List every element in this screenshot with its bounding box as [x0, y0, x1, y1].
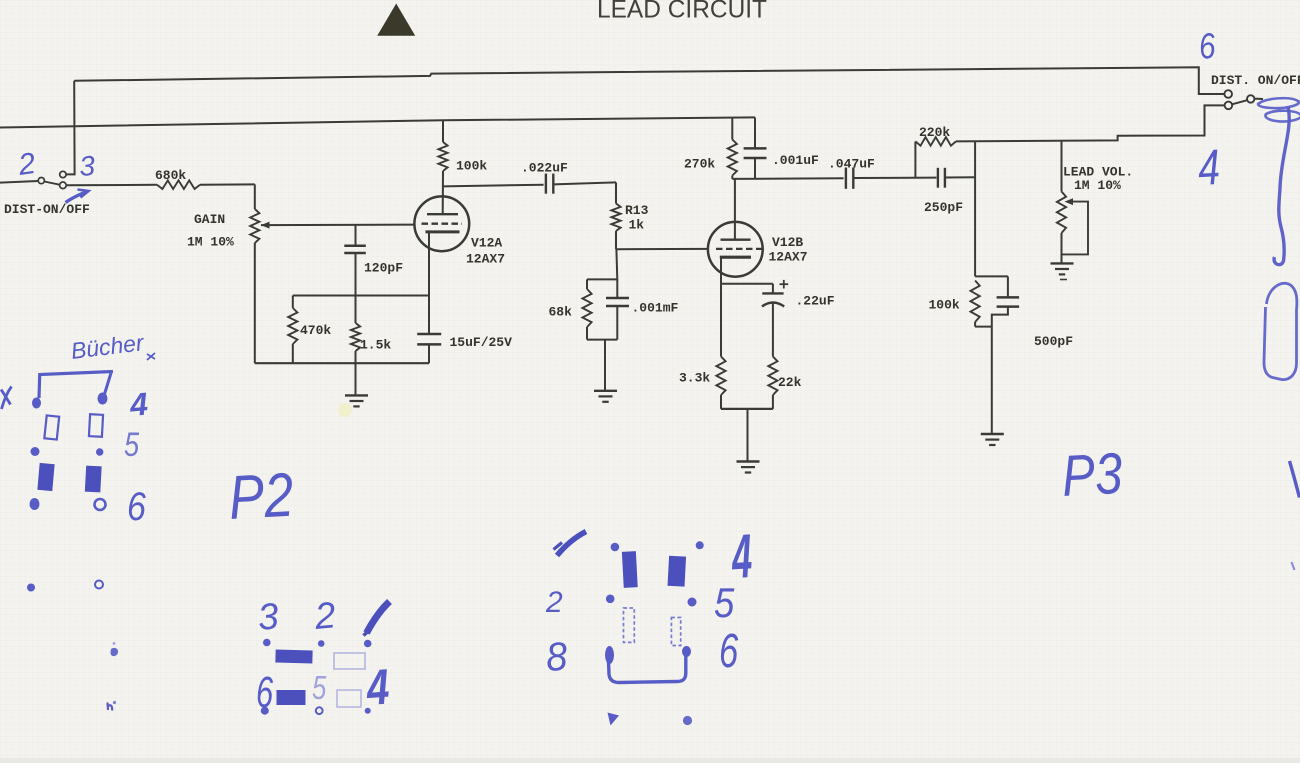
tube V12B 12AX7	[708, 222, 763, 277]
svg-text:6: 6	[127, 483, 146, 528]
wire switch to 680k	[66, 184, 157, 187]
capacitor 500pF	[997, 276, 1020, 306]
capacitor .001uF	[744, 117, 767, 178]
wire .047uF to 250pF	[853, 177, 936, 179]
svg-text:DIST. ON/OFF: DIST. ON/OFF	[1211, 73, 1300, 88]
svg-text:GAIN: GAIN	[194, 212, 225, 227]
resistor 680k	[157, 180, 200, 189]
capacitor .22uF polarized	[762, 280, 788, 357]
svg-text:4: 4	[364, 658, 391, 716]
svg-text:22k: 22k	[778, 375, 802, 390]
wire cathode to .22uF	[721, 283, 773, 285]
resistor 220k	[915, 137, 975, 178]
capacitor 250pF	[938, 168, 945, 188]
center filled pin rect B	[668, 556, 687, 587]
svg-text:270k: 270k	[684, 157, 715, 172]
connector pin dots mid	[31, 447, 40, 456]
connector bracket sketch	[39, 372, 113, 399]
wire top rail from left vertical to DIST switch	[74, 67, 1224, 94]
resistor 22k	[768, 357, 777, 409]
connector pin bottom dots	[30, 498, 40, 510]
wire 68k box bottom rail	[587, 339, 617, 341]
wire V12B plate lead	[734, 179, 736, 240]
wire 100k bottom	[975, 326, 992, 328]
svg-text:3: 3	[256, 595, 280, 638]
capacitor .022uF	[546, 174, 553, 194]
wire 680k to GAIN pot	[200, 183, 255, 185]
svg-text:.22uF: .22uF	[796, 294, 835, 309]
ground 68k network	[594, 391, 617, 402]
svg-text:1M 10%: 1M 10%	[1074, 178, 1121, 193]
resistor 68k	[582, 279, 591, 339]
wire cathode network bottom rail	[721, 408, 773, 410]
center dashed pin outline A	[624, 608, 635, 642]
wire V12A plate to .022uF	[443, 185, 544, 187]
svg-text:100k: 100k	[929, 298, 960, 313]
pen mark small right edge	[1292, 562, 1295, 570]
wire B+ supply rail	[0, 117, 755, 127]
potentiometer LEAD VOL 1M	[1057, 140, 1088, 262]
svg-text:3: 3	[78, 150, 96, 182]
handwritten arrow 1 below left switch	[66, 191, 89, 202]
center pin dots row2	[606, 595, 615, 604]
resistor 1.5k	[351, 296, 360, 364]
svg-text:1M 10%: 1M 10%	[187, 235, 234, 250]
ground V12A cathode network	[345, 395, 368, 406]
wire RC network bottom rail	[255, 362, 429, 364]
wire GAIN wiper to V12A grid	[261, 224, 415, 227]
svg-text:12AX7: 12AX7	[466, 252, 505, 267]
svg-text:1.5k: 1.5k	[360, 338, 391, 353]
wire 250pF to node	[945, 176, 975, 178]
resistor 470k	[288, 296, 297, 364]
pen scribble rounded loop right edge	[1264, 283, 1297, 379]
wire 68k box top rail	[587, 278, 617, 280]
connector pin outline rect 1	[44, 415, 59, 439]
connector pin filled rect 1	[37, 463, 54, 491]
yellow spot	[338, 403, 352, 417]
svg-text:V12A: V12A	[471, 236, 502, 251]
wire to ground V12B cathode	[747, 409, 749, 461]
pen scribble diagonal bottom right	[1290, 461, 1300, 498]
handwritten lambda mark left edge	[1, 387, 12, 410]
wire input from left edge	[0, 181, 38, 183]
wire V12A cathode lead	[428, 232, 430, 334]
svg-text:500pF: 500pF	[1034, 334, 1073, 349]
blue filled bar 2 mid	[277, 690, 306, 705]
center filled pin rect A	[622, 551, 638, 588]
svg-text:250pF: 250pF	[924, 200, 963, 215]
svg-text:6: 6	[719, 623, 739, 677]
blue filled bar 1 mid	[275, 650, 312, 664]
svg-text:.047uF: .047uF	[828, 157, 875, 172]
svg-text:.001uF: .001uF	[772, 153, 819, 168]
pen scribble long vertical stroke right edge	[1274, 107, 1289, 265]
wire plate node to .047uF	[732, 177, 843, 180]
svg-text:2: 2	[545, 586, 563, 619]
capacitor 120pF	[344, 225, 366, 296]
switch DIST. ON/OFF right	[1224, 90, 1263, 109]
wire 100k/500pF top rail	[975, 275, 1008, 277]
svg-text:.001mF: .001mF	[632, 301, 679, 316]
wire V12B cathode lead	[720, 257, 722, 284]
handwritten 1 slash center	[557, 532, 586, 556]
svg-text:470k: 470k	[300, 323, 331, 338]
center dashed pin outline B	[671, 618, 680, 646]
svg-text:1k: 1k	[629, 218, 645, 233]
wire to ground V12A cathode	[355, 363, 357, 395]
svg-text:5: 5	[312, 670, 327, 707]
center bracket hook	[608, 649, 686, 683]
svg-text:P2: P2	[227, 461, 295, 533]
svg-text:15uF/25V: 15uF/25V	[450, 335, 513, 350]
capacitor .047uF	[846, 168, 853, 189]
capacitor 15uF/25V	[417, 334, 441, 363]
triangle marker	[377, 4, 415, 36]
wire RC network top rail	[293, 295, 429, 297]
resistor 100k right	[971, 281, 980, 327]
faint outline bar mid	[334, 653, 365, 669]
tube V12A 12AX7	[414, 196, 469, 251]
svg-text:4: 4	[127, 386, 149, 424]
connector pin outline rect 2	[89, 414, 103, 437]
faint outline bar 2 mid	[337, 690, 361, 707]
svg-text:68k: 68k	[549, 305, 573, 320]
svg-text:8: 8	[545, 635, 569, 680]
ground 100k/500pF network	[981, 434, 1004, 445]
svg-text:V12B: V12B	[772, 235, 803, 250]
resistor 100k V12A plate	[438, 120, 447, 214]
wire node vertical to 100k/500pF	[974, 141, 976, 276]
svg-text:2: 2	[312, 594, 337, 637]
svg-text:220k: 220k	[919, 125, 950, 140]
resistor 3.3k	[716, 284, 725, 409]
svg-text:.022uF: .022uF	[521, 161, 568, 176]
blue dots mid trio	[263, 639, 271, 647]
wire left vertical to top rail	[66, 81, 75, 175]
wire node to DIST switch right	[975, 105, 1224, 141]
svg-text:R13: R13	[625, 203, 649, 218]
wire to ground 100k/500pF	[991, 327, 993, 434]
svg-text:5: 5	[124, 425, 140, 464]
wire 500pF bottom jog	[992, 307, 1008, 327]
pen scribble loops near right switch	[1258, 98, 1300, 121]
svg-text:100k: 100k	[456, 159, 487, 174]
capacitor .001mF	[606, 298, 629, 340]
wire R13 to V12B grid	[616, 248, 708, 250]
svg-text:DIST-ON/OFF: DIST-ON/OFF	[4, 202, 90, 217]
wire junction down to .001mF	[615, 249, 618, 297]
resistor 270k	[728, 119, 737, 179]
svg-text:LEAD CIRCUIT: LEAD CIRCUIT	[597, 0, 767, 24]
center pin dots top	[611, 543, 620, 552]
switch DIST-ON/OFF left	[38, 171, 66, 188]
svg-text:680k: 680k	[155, 168, 186, 183]
ground LEAD VOL	[1051, 263, 1074, 274]
svg-text:5: 5	[714, 580, 734, 627]
resistor R13 1k	[611, 182, 620, 249]
potentiometer GAIN 1M	[250, 184, 259, 363]
svg-text:4: 4	[1197, 138, 1222, 196]
stray blue dots left	[27, 584, 35, 592]
svg-text:12AX7: 12AX7	[769, 250, 808, 265]
wire to ground 68k network	[604, 340, 606, 391]
handwritten 1 slash mid	[367, 602, 390, 634]
center bottom dots	[608, 713, 620, 726]
wire .022uF to R13	[553, 182, 616, 184]
svg-text:3.3k: 3.3k	[679, 371, 710, 386]
svg-text:P3: P3	[1060, 441, 1124, 509]
ground V12B cathode network	[737, 462, 760, 473]
svg-text:120pF: 120pF	[364, 261, 403, 276]
connector pin filled rect 2	[85, 466, 102, 493]
